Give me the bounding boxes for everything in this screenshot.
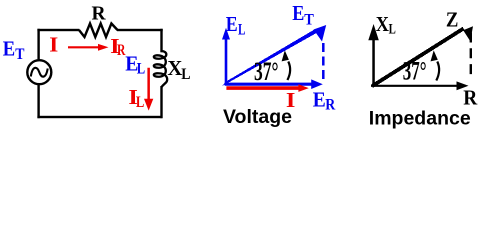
svg-text:Voltage: Voltage xyxy=(223,106,292,128)
svg-text:X: X xyxy=(167,56,182,80)
wire right upper xyxy=(160,29,162,53)
svg-text:I: I xyxy=(49,33,58,57)
resistor R zigzag xyxy=(79,24,118,38)
impedance dashed projection line xyxy=(470,33,472,80)
voltage angle arrowhead xyxy=(282,50,289,61)
wire right lower xyxy=(160,86,162,118)
svg-text:R: R xyxy=(325,97,335,114)
svg-text:R: R xyxy=(92,4,107,25)
impedance phasor XL arrow xyxy=(368,24,379,87)
current IL arrow xyxy=(144,68,153,111)
svg-text:L: L xyxy=(389,21,396,37)
svg-text:E: E xyxy=(292,1,304,25)
inductor L coil xyxy=(154,51,167,87)
svg-text:E: E xyxy=(226,12,238,36)
svg-text:Impedance: Impedance xyxy=(369,107,471,129)
voltage angle arc xyxy=(287,62,290,81)
wire bottom xyxy=(37,116,162,118)
voltage phasor EL arrow xyxy=(222,28,230,85)
impedance phasor R arrow xyxy=(371,81,469,90)
svg-text:L: L xyxy=(238,21,245,38)
svg-text:L: L xyxy=(136,94,144,111)
wire left lower xyxy=(37,85,39,119)
svg-text:X: X xyxy=(376,12,390,36)
wire top-left segment xyxy=(37,29,79,31)
svg-text:37°: 37° xyxy=(254,56,278,86)
voltage dashed projection line xyxy=(322,43,325,80)
voltage current I arrow red xyxy=(226,84,308,92)
impedance angle arc xyxy=(436,62,439,81)
wire left upper xyxy=(37,29,39,60)
impedance phasor Z arrow xyxy=(371,26,473,88)
AC source circle xyxy=(27,60,51,84)
svg-text:R: R xyxy=(463,85,478,109)
svg-text:Z: Z xyxy=(446,8,459,32)
impedance angle arrowhead xyxy=(431,50,438,61)
svg-text:E: E xyxy=(313,87,326,111)
AC source sine symbol xyxy=(31,68,48,77)
svg-text:E: E xyxy=(3,37,15,61)
svg-text:T: T xyxy=(15,46,24,63)
svg-text:37°: 37° xyxy=(403,55,427,85)
svg-text:L: L xyxy=(137,61,145,78)
svg-text:L: L xyxy=(181,66,190,83)
voltage phasor ET arrow xyxy=(222,25,326,86)
current I arrow xyxy=(68,44,109,51)
svg-text:T: T xyxy=(304,12,314,29)
wire top-right segment xyxy=(117,29,163,31)
voltage phasor ER arrow xyxy=(225,79,323,89)
